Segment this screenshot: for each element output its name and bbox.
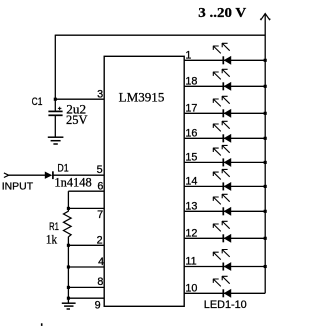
svg-text:1k: 1k	[46, 232, 58, 246]
node: bus junction pin 15	[264, 161, 267, 164]
wire: pin 7	[68, 207, 104, 209]
svg-text:4: 4	[98, 256, 104, 268]
wire: input to D1	[9, 174, 45, 176]
node: bus junction pin 13	[264, 210, 267, 213]
wire: pin 14 to LED bus	[184, 185, 265, 187]
node: bus junction pin 1	[264, 59, 267, 62]
svg-text:18: 18	[185, 75, 197, 87]
wire: pin 15 to LED bus	[184, 161, 265, 163]
LED at pin 18	[213, 69, 231, 90]
node: pin 2 junction	[67, 244, 70, 247]
LED at pin 14	[213, 169, 231, 190]
svg-text:17: 17	[185, 102, 197, 114]
node: bus junction pin 14	[264, 185, 267, 188]
svg-text:D1: D1	[57, 162, 68, 174]
capacitor C1	[48, 107, 62, 116]
svg-text:14: 14	[185, 175, 197, 187]
wire: drop from top rail to C1 / pin 3	[54, 35, 56, 111]
wire: pin 10 to LED bus	[184, 292, 265, 294]
node: bus junction pin 18	[264, 85, 267, 88]
node: bus junction pin 11	[264, 265, 267, 268]
svg-text:LM3915: LM3915	[119, 89, 165, 104]
wire: pin 2	[68, 244, 104, 246]
LED at pin 13	[213, 194, 231, 215]
node: pin 8 junction	[67, 286, 70, 289]
svg-text:3 ..20 V: 3 ..20 V	[198, 6, 246, 21]
svg-text:15: 15	[185, 151, 197, 163]
wire: C1 to ground	[54, 115, 56, 137]
input terminal chevron	[4, 173, 9, 178]
wire: pin 4	[68, 266, 104, 268]
svg-text:1n4148: 1n4148	[54, 175, 91, 189]
svg-text:6: 6	[97, 180, 103, 192]
wire: pin 13 to LED bus	[184, 210, 265, 212]
wire: rail below R1 to ground	[67, 237, 69, 303]
svg-text:9: 9	[95, 300, 101, 312]
node: C1 / pin 3 junction	[54, 98, 57, 101]
wire: pin 6	[68, 190, 104, 192]
svg-text:LED1-10: LED1-10	[204, 299, 247, 311]
LED at pin 16	[213, 121, 231, 142]
wire: pin 3	[55, 98, 104, 100]
wire: pin 12 to LED bus	[184, 237, 265, 239]
svg-text:R1: R1	[49, 221, 59, 233]
diode D1	[45, 171, 53, 179]
svg-text:1: 1	[185, 49, 191, 61]
wire: D1 to pin 5	[53, 174, 104, 176]
wire: rail from pin 6 down to R1	[67, 191, 69, 211]
svg-text:7: 7	[97, 209, 103, 221]
svg-text:8: 8	[97, 276, 103, 288]
wire: pin 11 to LED bus	[184, 266, 265, 268]
V+ arrow head	[260, 14, 270, 20]
stray ink dot bottom-left	[41, 323, 43, 326]
IC U1 LM3915 body	[104, 56, 184, 306]
LED at pin 15	[213, 145, 231, 166]
wire: V+ bus (right vertical)	[264, 14, 266, 293]
wire: V+ top rail	[55, 34, 265, 36]
node: bus junction pin 12	[264, 237, 267, 240]
wire: pin 17 to LED bus	[184, 112, 265, 114]
wire: pin 18 to LED bus	[184, 85, 265, 87]
LED at pin 1	[213, 43, 231, 64]
wire: pin 9	[68, 297, 104, 299]
node: pin 4 junction	[67, 265, 70, 268]
svg-text:INPUT: INPUT	[2, 180, 34, 192]
node: pin 7 junction	[67, 207, 70, 210]
svg-text:11: 11	[185, 256, 196, 268]
LED at pin 10	[213, 276, 231, 297]
node: bus junction pin 17	[264, 112, 267, 115]
node: pin 9 junction	[67, 297, 70, 300]
svg-text:C1: C1	[32, 96, 43, 108]
LED at pin 12	[213, 221, 231, 242]
wire: pin 1 to LED bus	[184, 59, 265, 61]
svg-text:5: 5	[97, 164, 103, 176]
svg-text:12: 12	[185, 227, 197, 239]
svg-text:2: 2	[97, 234, 103, 246]
ground (bottom rail)	[62, 303, 76, 309]
LED at pin 11	[213, 249, 231, 270]
wire: pin 8	[68, 286, 104, 288]
svg-text:10: 10	[185, 282, 197, 294]
svg-text:3: 3	[97, 88, 103, 100]
ground (below C1)	[48, 137, 64, 144]
svg-text:13: 13	[185, 200, 197, 212]
svg-text:16: 16	[185, 127, 197, 139]
resistor R1 zigzag	[64, 211, 72, 237]
LED at pin 17	[213, 96, 231, 117]
wire: pin 16 to LED bus	[184, 137, 265, 139]
node: bus junction pin 16	[264, 137, 267, 140]
svg-text:25V: 25V	[66, 113, 88, 127]
